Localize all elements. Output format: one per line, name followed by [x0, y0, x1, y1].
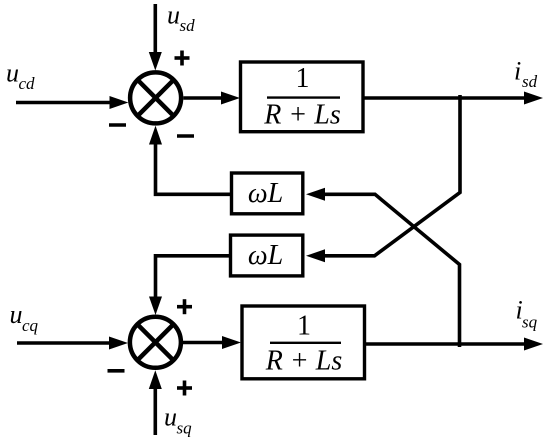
svg-text:cq: cq — [22, 316, 39, 335]
label i_sd — [514, 57, 538, 92]
minus sign (u_cq input to S2) — [108, 369, 125, 373]
svg-text:R + Ls: R + Ls — [265, 346, 343, 377]
svg-text:u: u — [167, 1, 180, 30]
svg-text:u: u — [10, 300, 23, 329]
svg-text:1: 1 — [296, 63, 310, 94]
svg-text:ωL: ωL — [248, 240, 283, 271]
node junction on i_sd line, cross-coupling wire A down to wL lower box — [306, 95, 460, 262]
wire u_sd input arrow from top into S1 — [149, 4, 162, 71]
label u_cq — [10, 300, 39, 335]
label 1/(R+Ls) in U2 — [265, 311, 343, 377]
wire U1 output to i_sd arrow — [364, 92, 543, 105]
svg-text:sd: sd — [180, 16, 196, 35]
svg-text:1: 1 — [297, 311, 311, 342]
svg-text:R + Ls: R + Ls — [263, 100, 341, 131]
box wL lower (omega L) — [231, 235, 303, 276]
svg-text:sq: sq — [177, 419, 193, 438]
label u_sd — [167, 1, 195, 35]
svg-text:u: u — [6, 59, 19, 88]
label u_cd — [6, 59, 35, 93]
svg-text:ωL: ωL — [248, 178, 283, 209]
wire wL upper output to S1 bottom (minus feedback) — [149, 126, 231, 195]
svg-text:cd: cd — [19, 74, 36, 93]
wire S2 output to box U2 — [181, 336, 241, 349]
summing junction S1 — [130, 72, 181, 123]
box U2 transfer function 1/(R+Ls) — [242, 306, 365, 379]
minus sign (feedback input to S1 bottom) — [177, 134, 194, 138]
svg-text:u: u — [164, 403, 177, 432]
label i_sq — [516, 296, 538, 332]
box wL upper (omega L) — [232, 173, 303, 214]
node junction on i_sq line, cross-coupling wire B up to wL upper box — [306, 188, 460, 347]
summing junction S2 — [130, 317, 181, 368]
wire u_sq input arrow from bottom into S2 — [149, 370, 162, 435]
svg-text:sq: sq — [522, 313, 538, 332]
svg-text:i: i — [514, 57, 521, 86]
wire u_cq input arrow into summing junction S2 — [17, 337, 128, 350]
label 1/(R+Ls) in U1 — [263, 63, 341, 131]
plus sign (u_sq input to S2) — [177, 381, 192, 396]
wire S1 output to box U1 — [183, 92, 240, 105]
box U1 transfer function 1/(R+Ls) — [241, 62, 364, 132]
wire wL lower output to S2 top (plus feed) — [149, 256, 231, 315]
wire u_cd input arrow into summing junction S1 — [16, 96, 129, 109]
svg-text:sd: sd — [522, 72, 538, 91]
minus sign (u_cd input to S1) — [109, 123, 126, 127]
label u_sq — [164, 403, 192, 438]
plus sign (wL feed into S2 top) — [177, 299, 192, 314]
wire U2 output to i_sq arrow — [366, 338, 544, 351]
plus sign (u_sd input to S1) — [175, 51, 190, 66]
